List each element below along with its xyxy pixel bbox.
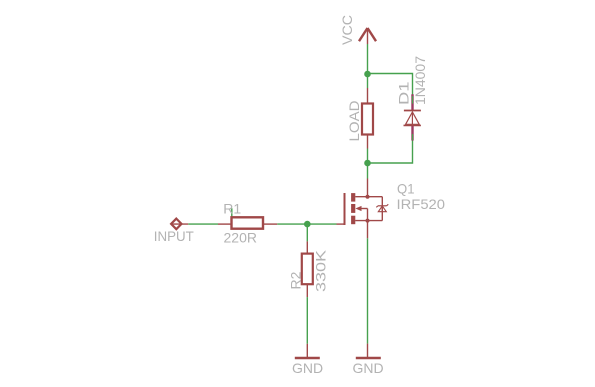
junction top — [364, 71, 371, 78]
wire junction to LOAD — [367, 74, 369, 88]
svg-text:GND: GND — [292, 360, 323, 376]
wire bottom branch to diode — [368, 140, 413, 164]
svg-text:1N4007: 1N4007 — [412, 56, 428, 105]
wire INPUT to R1 — [188, 223, 218, 225]
wire R2 to GND — [306, 297, 308, 344]
ground left — [292, 344, 323, 376]
svg-text:D1: D1 — [396, 81, 412, 105]
svg-text:LOAD: LOAD — [346, 101, 362, 142]
svg-text:R2: R2 — [288, 271, 304, 289]
junction bottom — [364, 160, 371, 167]
svg-text:R1: R1 — [223, 201, 241, 217]
transistor Q1 IRF520 — [337, 179, 446, 226]
wire VCC to junction — [367, 44, 369, 74]
supply VCC — [339, 15, 376, 45]
svg-text:330K: 330K — [313, 249, 329, 292]
wire R1 to junction — [277, 223, 307, 225]
svg-text:Q1: Q1 — [397, 180, 415, 196]
wire junction bottom to Q1 drain — [367, 163, 369, 179]
wire top branch to diode — [368, 74, 413, 104]
resistor R2 — [288, 241, 329, 297]
resistor R1 — [218, 201, 277, 246]
svg-text:IRF520: IRF520 — [397, 196, 446, 212]
wire LOAD to junction bottom — [367, 149, 369, 164]
pin INPUT — [154, 219, 194, 244]
svg-text:VCC: VCC — [339, 15, 355, 45]
wire junction down to R2 — [306, 224, 308, 241]
svg-text:INPUT: INPUT — [154, 228, 194, 244]
svg-text:220R: 220R — [224, 229, 257, 245]
wire stub at R1 — [231, 208, 233, 218]
wire junction to Q1 gate — [307, 223, 336, 225]
junction input — [304, 221, 311, 228]
svg-text:GND: GND — [353, 360, 384, 376]
diode D1 1N4007 — [396, 56, 428, 141]
wire Q1 source to GND — [367, 221, 369, 344]
resistor LOAD — [346, 88, 373, 149]
ground right — [353, 344, 384, 376]
